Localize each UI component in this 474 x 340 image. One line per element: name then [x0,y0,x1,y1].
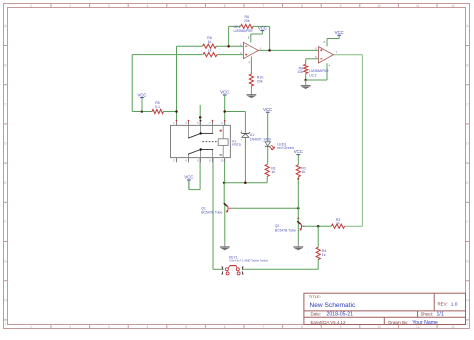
VCC flag U2.1 [258,25,267,31]
wire VCC to relay pin9 and diode U1 [225,97,246,133]
wire U2.2 inverting input to R9 [306,59,319,65]
VCC flag LED1 [263,107,272,142]
svg-text:F: F [467,220,469,224]
svg-text:U2.2: U2.2 [309,73,316,77]
svg-text:1k: 1k [208,49,212,53]
svg-text:4: 4 [147,325,149,329]
svg-text:E: E [466,181,468,185]
wire relay pin10 to Q1 collector [223,158,225,203]
svg-text:8: 8 [301,4,303,8]
svg-text:1/1: 1/1 [437,312,444,318]
switch KEY1 tactile [221,256,268,275]
wire relay pin6 to VCC hook [189,158,200,190]
svg-text:12: 12 [451,4,455,8]
svg-text:10: 10 [377,4,381,8]
svg-text:1.0: 1.0 [451,301,458,307]
wire R4 to KEY1 right [242,260,318,270]
svg-text:VCC: VCC [258,25,267,30]
svg-text:B: B [4,63,6,67]
junction R3 R4 base node [317,225,320,228]
node A junction [227,45,230,48]
svg-text:Date:: Date: [311,312,322,317]
ground below R10 [247,95,257,98]
svg-text:VCC: VCC [294,149,303,154]
wire R2 bottom to Q2 collector [297,177,299,219]
svg-text:TITLE:: TITLE: [309,294,321,299]
svg-text:1k: 1k [336,221,340,225]
svg-text:20k: 20k [244,19,250,23]
svg-text:VCC: VCC [137,92,146,97]
ground Q2 emitter [293,247,303,250]
resistor R6 20k feedback [241,15,253,29]
wire Q2 emitter to ground [297,231,299,247]
wire Q1 emitter to ground [224,214,226,247]
svg-text:BC547B Tube: BC547B Tube [275,228,296,232]
transistor Q1 BC547B [201,203,231,215]
wire R6 right to U2.1 output [253,26,270,50]
LED LED1 red Green [265,142,294,150]
svg-text:Your Name: Your Name [412,320,438,326]
VCC flag relay pin6 [184,175,193,190]
wire Q2 base to R3 [303,225,332,227]
op-amp U2.1 LM358APSR [234,25,263,64]
wire diode U1 bottom to bus [244,138,246,183]
svg-text:Drawn By:: Drawn By: [388,320,408,325]
wire LED1 to R1 [267,146,269,164]
title block [304,293,466,326]
resistor R8 [203,36,217,48]
svg-text:1: 1 [30,325,32,329]
wire U2.1 output to U2.2 noninverting input [258,49,318,51]
junction bus relay column [223,181,226,184]
svg-text:9: 9 [340,325,342,329]
svg-text:8: 8 [301,325,303,329]
wire R5 right to relay pin1 [164,112,177,126]
ground below R9 [301,80,311,89]
svg-text:LM358APSR: LM358APSR [234,29,254,33]
wire relay pin8 to KEY1 [213,158,224,270]
junction R5 VCC [141,110,144,113]
diode U1 1N4007 [241,131,272,142]
svg-text:VCC: VCC [220,90,229,95]
svg-text:2: 2 [69,4,71,8]
svg-text:11: 11 [416,4,420,8]
wire node A to R6 feedback [229,26,241,46]
svg-text:6: 6 [224,325,226,329]
svg-text:3: 3 [108,4,110,8]
junction relay pin5 stub [199,116,202,119]
wire Q1 base to Q2 collector [231,207,298,209]
relay K1 FRT5 [171,121,241,163]
resistor R7 [203,49,217,57]
svg-text:I: I [467,322,468,326]
junction R5 right [175,110,178,113]
wire R8 left to relay pin1 column [177,46,203,111]
wire R5 left column [132,111,152,113]
svg-text:VCC: VCC [263,107,272,112]
junction Q2 collector [297,207,300,210]
resistor R4 1k [316,247,326,259]
svg-text:E: E [4,181,6,185]
svg-text:6: 6 [224,4,226,8]
svg-text:BC547B Tube: BC547B Tube [201,210,222,214]
svg-text:VCC: VCC [335,30,344,35]
junction bus diode column [244,181,247,184]
wire stub above relay pin5 [199,105,201,126]
junction VCC diode branch [223,110,226,113]
svg-text:12: 12 [451,325,455,329]
resistor R1 1k [265,164,276,176]
resistor R5 [152,101,163,113]
svg-text:7: 7 [262,325,264,329]
wire R7 right to U2.1 non-inverting input [217,54,243,56]
svg-text:F: F [5,220,7,224]
svg-text:10: 10 [377,325,381,329]
svg-text:1k: 1k [208,40,212,44]
wire VCC hook U2.2 pin8 [327,35,339,46]
wire VCC hook U2.1 pin8 [251,31,263,43]
svg-text:I: I [5,322,6,326]
resistor R2 1k [296,165,306,177]
wire U2.2 output to R3 right [333,55,362,226]
svg-text:0.1: 0.1 [155,105,160,109]
wire R8 right to U2.1 inverting input [216,45,243,47]
wire R9 to ground node [305,74,307,81]
svg-text:1: 1 [30,4,32,8]
svg-text:2018-05-21: 2018-05-21 [327,312,354,318]
wire ground node to U2.2 pin4 [306,63,327,80]
svg-text:4: 4 [147,4,149,8]
wire R10 to ground [250,86,252,95]
svg-text:REV:: REV: [438,301,448,306]
VCC flag near R5 [137,92,146,111]
svg-text:Sheet:: Sheet: [421,312,434,317]
ground Q1 emitter [220,247,230,250]
wire base node to R4 [317,226,319,247]
svg-text:red Green: red Green [277,146,294,150]
svg-text:1N4007_SMD: 1N4007_SMD [250,137,272,141]
VCC flag R2 [294,149,303,165]
svg-text:5: 5 [185,4,187,8]
VCC flag relay coil [220,90,229,98]
op-amp U2.2 LM358APSR [309,40,337,78]
svg-text:1k: 1k [271,170,275,174]
node C junction R9 bottom [304,79,307,82]
wire R7 left to R5 column [132,55,202,112]
svg-text:5: 5 [185,325,187,329]
wire bottom bus [224,176,267,182]
svg-text:2: 2 [69,325,71,329]
pin tip dots [176,120,300,180]
svg-text:10k: 10k [297,70,303,74]
svg-text:1k: 1k [322,253,326,257]
svg-text:1k: 1k [301,170,305,174]
svg-text:9: 9 [340,4,342,8]
svg-text:EasyEDA V5.4.12: EasyEDA V5.4.12 [311,320,346,325]
wire U2.1 pin4 to R10 [250,57,252,75]
resistor R9 10k [297,64,307,74]
resistor R3 1k [331,218,344,229]
svg-text:FRT5: FRT5 [232,143,241,147]
svg-text:VCC: VCC [184,175,193,180]
svg-text:B: B [466,63,468,67]
node B junction output U2.1 [268,49,271,52]
svg-text:New Schematic: New Schematic [310,302,357,309]
transistor Q2 BC547B [275,218,305,233]
VCC flag U2.2 [335,30,344,36]
resistor R10 20k [249,74,263,86]
svg-text:4.5x4.5x7.1 SMD Tactile Switch: 4.5x4.5x7.1 SMD Tactile Switch [229,259,269,263]
svg-text:20k: 20k [257,79,263,83]
svg-text:3: 3 [108,325,110,329]
svg-text:7: 7 [262,4,264,8]
